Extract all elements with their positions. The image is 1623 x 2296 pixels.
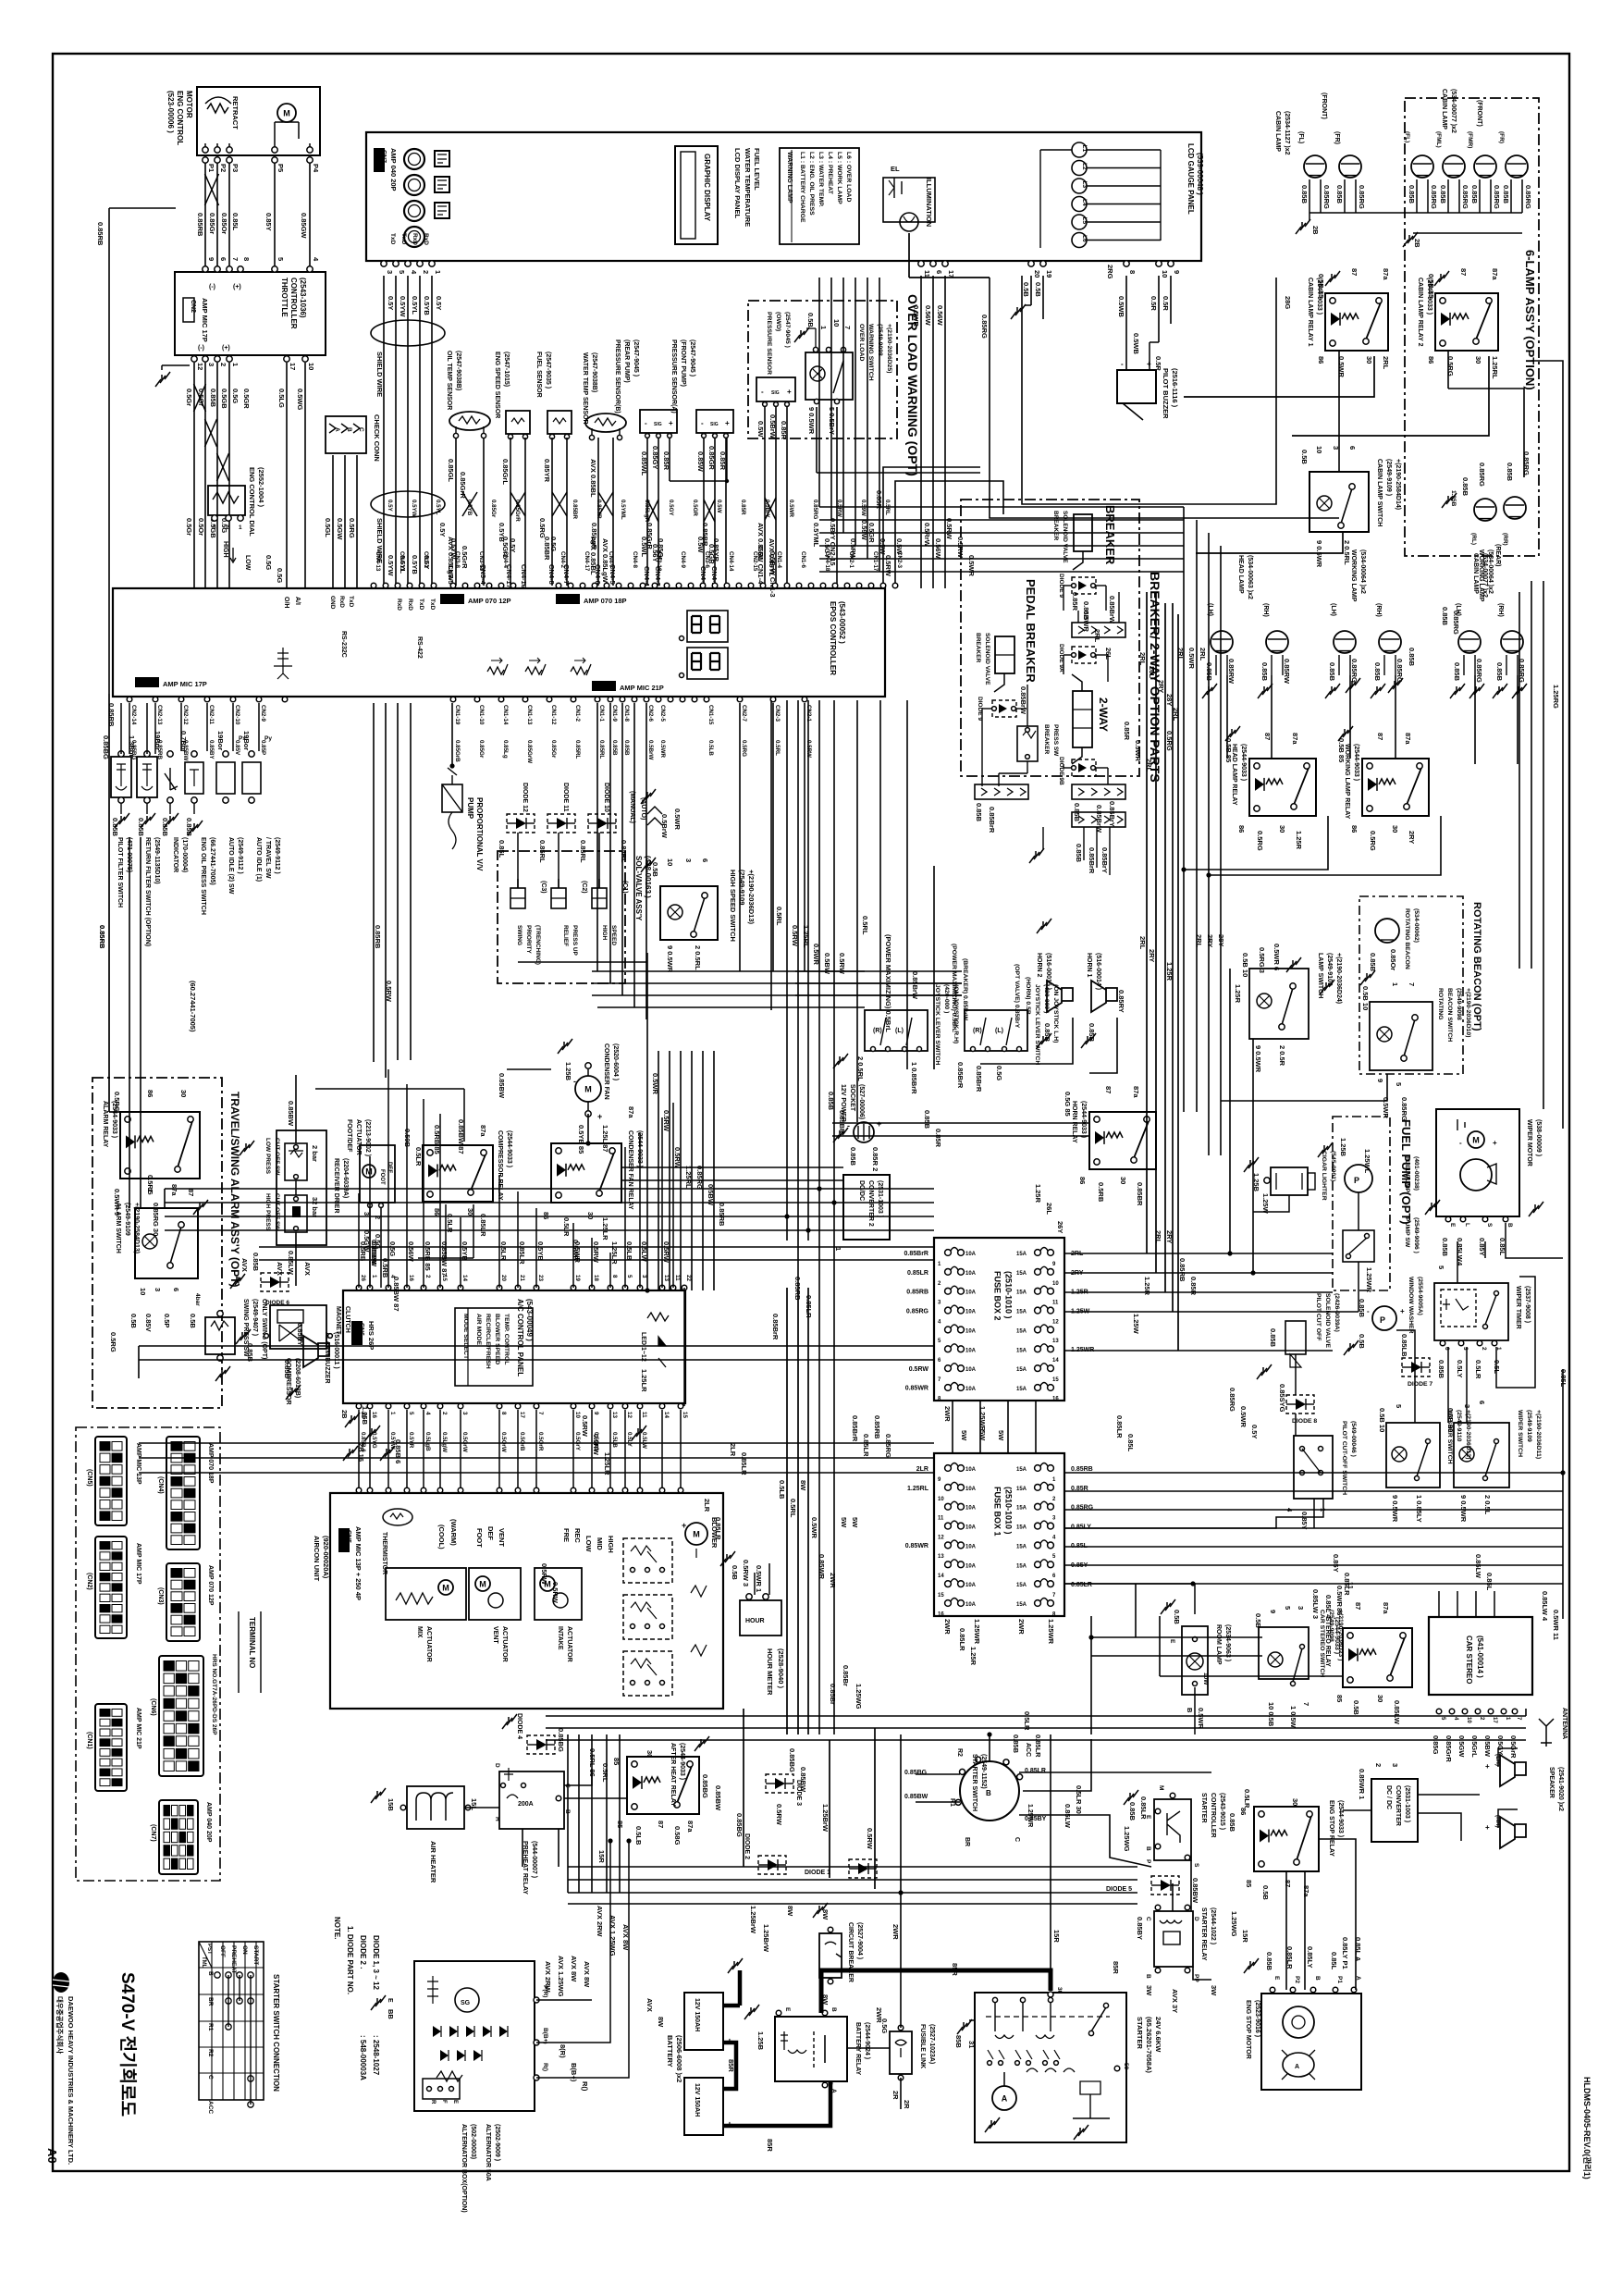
svg-text:1.25R: 1.25R xyxy=(1165,962,1174,981)
svg-text:1.25R: 1.25R xyxy=(1295,831,1303,850)
wires starter area buses xyxy=(568,1866,1137,1868)
svg-text:0.85RG: 0.85RG xyxy=(906,1308,929,1315)
svg-text:10A: 10A xyxy=(965,1506,977,1512)
svg-text:13: 13 xyxy=(938,1554,944,1560)
svg-text:9 0.5WR: 9 0.5WR xyxy=(807,407,816,435)
svg-text:6: 6 xyxy=(1444,1347,1450,1351)
svg-text:+: + xyxy=(725,419,730,427)
svg-text:85R: 85R xyxy=(1112,1961,1120,1974)
svg-text:1.25R: 1.25R xyxy=(1034,1184,1042,1204)
svg-text:0.85BrW: 0.85BrW xyxy=(911,971,919,1000)
svg-text:AVX 8W: AVX 8W xyxy=(621,1924,630,1951)
svg-text:1.25WR: 1.25WR xyxy=(1365,1267,1373,1293)
svg-text:5: 5 xyxy=(1284,1606,1292,1610)
svg-text:R1: R1 xyxy=(207,2023,214,2031)
svg-text:FRE: FRE xyxy=(562,1528,571,1542)
svg-text:0.85RG 30: 0.85RG 30 xyxy=(152,1203,160,1236)
svg-text:87a: 87a xyxy=(627,1106,635,1118)
svg-text:11: 11 xyxy=(641,1412,647,1418)
svg-text:RETRACT: RETRACT xyxy=(231,96,240,130)
svg-text:200A: 200A xyxy=(518,1801,534,1808)
svg-text:0.85RB: 0.85RB xyxy=(793,1277,802,1301)
svg-text:L6 : OVER LOAD: L6 : OVER LOAD xyxy=(845,152,852,202)
svg-text:0.85B: 0.85B xyxy=(1439,185,1447,204)
svg-text:(2544-9024 ): (2544-9024 ) xyxy=(864,2022,870,2059)
svg-text:0.85RG: 0.85RG xyxy=(812,500,818,520)
svg-text:(FRONT): (FRONT) xyxy=(1321,93,1327,119)
starter internals xyxy=(992,2086,1016,2110)
svg-text:0.85B: 0.85B xyxy=(1502,185,1510,204)
svg-text:0.85BW: 0.85BW xyxy=(904,1794,928,1800)
svg-text:WIPER SWITCH: WIPER SWITCH xyxy=(1517,1410,1523,1457)
svg-text:CN1-13: CN1-13 xyxy=(526,705,533,725)
svg-text:H: H xyxy=(494,1817,500,1821)
svg-text:0.5LR: 0.5LR xyxy=(1474,1360,1482,1379)
svg-text:HIGH PRESS: HIGH PRESS xyxy=(264,1193,271,1231)
svg-text:(FRONT PUMP): (FRONT PUMP) xyxy=(680,339,686,387)
cabin lamp relay 2 xyxy=(1435,293,1498,351)
svg-text:(RH): (RH) xyxy=(1262,603,1269,617)
svg-text:0.5B: 0.5B xyxy=(806,313,815,327)
svg-text:LCD DISPLAY PANEL: LCD DISPLAY PANEL xyxy=(733,148,742,219)
svg-text:0.85R: 0.85R xyxy=(1123,722,1131,741)
svg-text:FOOT/DEF: FOOT/DEF xyxy=(346,1119,352,1153)
svg-text:1.25WR: 1.25WR xyxy=(973,1619,981,1645)
wires at speakers xyxy=(1498,1748,1518,1767)
svg-text:(516-00011 ): (516-00011 ) xyxy=(333,1332,339,1369)
svg-text:(2544-9033 ): (2544-9033 ) xyxy=(1353,744,1359,781)
wire preheat down xyxy=(558,1829,559,1867)
svg-text:1.25WG: 1.25WG xyxy=(855,1684,863,1710)
svg-text:0.5RW: 0.5RW xyxy=(662,1110,670,1132)
svg-text:MIX: MIX xyxy=(416,1626,423,1638)
svg-text:0.5WR: 0.5WR xyxy=(1187,648,1196,670)
svg-text:0.5RW: 0.5RW xyxy=(791,925,799,947)
svg-text:87a: 87a xyxy=(1404,733,1412,745)
svg-text:(CN5): (CN5) xyxy=(86,1469,92,1487)
svg-text:9 0.5WR: 9 0.5WR xyxy=(666,945,674,973)
compressor relay xyxy=(423,1145,493,1202)
svg-text:0.5B 85: 0.5B 85 xyxy=(1317,274,1325,298)
compressor relay wires xyxy=(463,1089,465,1142)
sol valve feed horizontals xyxy=(518,961,647,963)
svg-text:3: 3 xyxy=(386,270,394,274)
svg-text:(2543-9015 ): (2543-9015 ) xyxy=(1219,1793,1225,1830)
svg-text:E: E xyxy=(1169,1639,1175,1644)
svg-text:0.85RG: 0.85RG xyxy=(1478,463,1486,487)
svg-text:2: 2 xyxy=(219,363,227,366)
svg-text:0.5RW 3: 0.5RW 3 xyxy=(742,1560,750,1586)
svg-text:+: + xyxy=(1400,1307,1405,1315)
svg-text:1.25BrW: 1.25BrW xyxy=(762,1924,770,1953)
diode 2 dashed xyxy=(758,1856,786,1874)
svg-text:(2547-9035 ): (2547-9035 ) xyxy=(545,352,551,389)
cigar lighter xyxy=(1271,1167,1308,1195)
svg-text:BREAKER: BREAKER xyxy=(1043,724,1050,754)
svg-text:0.85BrW: 0.85BrW xyxy=(1019,686,1027,715)
svg-text:11: 11 xyxy=(674,1275,681,1281)
svg-text:PUMP SW: PUMP SW xyxy=(1404,1217,1410,1248)
svg-text:0.85LgR: 0.85LgR xyxy=(590,523,598,550)
svg-text:30: 30 xyxy=(586,1212,595,1219)
svg-text:1: 1 xyxy=(434,270,442,274)
svg-text:2WR: 2WR xyxy=(943,1619,952,1635)
svg-text:2RL: 2RL xyxy=(1145,759,1153,772)
svg-text:86: 86 xyxy=(1427,356,1435,364)
wiper motor box xyxy=(1436,1109,1519,1216)
svg-text:0.5RG: 0.5RG xyxy=(1369,831,1377,851)
svg-text:HIGH: HIGH xyxy=(607,1536,615,1553)
svg-text:20: 20 xyxy=(500,1275,507,1281)
svg-text:0.5LR 30: 0.5LR 30 xyxy=(1075,1785,1083,1814)
svg-text:0.85L 4: 0.85L 4 xyxy=(1324,1595,1333,1619)
svg-text:7: 7 xyxy=(231,257,240,261)
svg-text:0.85RB: 0.85RB xyxy=(906,1290,928,1296)
svg-text:30: 30 xyxy=(1278,825,1286,833)
diode 3 dashed xyxy=(766,1774,793,1793)
6-lamp feed wires from left xyxy=(990,278,1339,518)
svg-text:50: 50 xyxy=(1123,2063,1129,2070)
svg-text:CAR STEREO SWITCH: CAR STEREO SWITCH xyxy=(1319,1610,1325,1677)
svg-text:CN1-15: CN1-15 xyxy=(707,705,714,725)
svg-text:0.5YW: 0.5YW xyxy=(411,500,417,517)
svg-text:0.85LY P1: 0.85LY P1 xyxy=(1341,1937,1349,1969)
svg-text:86: 86 xyxy=(1078,1177,1087,1184)
svg-text:-: - xyxy=(573,1077,576,1086)
breaker area grounds and wires xyxy=(1035,851,1037,857)
svg-text:O/H: O/H xyxy=(283,597,289,608)
svg-text:0.58G: 0.58G xyxy=(673,1826,682,1845)
overload owd wires down xyxy=(764,407,766,586)
svg-text:0.85L: 0.85L xyxy=(1485,1573,1494,1591)
fusible link xyxy=(890,2031,912,2074)
svg-text:ENG OIL PRESS SWITCH: ENG OIL PRESS SWITCH xyxy=(200,837,206,915)
svg-text:0.85RB: 0.85RB xyxy=(98,925,106,949)
svg-text:HIGH: HIGH xyxy=(601,925,608,941)
ground high speed xyxy=(646,860,648,866)
svg-text:0.85LR: 0.85LR xyxy=(862,1434,870,1457)
svg-text:2WR: 2WR xyxy=(829,1573,837,1588)
svg-text:17: 17 xyxy=(1492,1717,1497,1723)
svg-text:SOLENOID VALVE: SOLENOID VALVE xyxy=(984,633,990,685)
beacon wires xyxy=(1221,1074,1387,1101)
svg-text:INTAKE: INTAKE xyxy=(557,1626,563,1650)
left edge long vertical to alarm xyxy=(108,694,110,1112)
svg-text:0.5G: 0.5G xyxy=(264,555,273,570)
svg-text:0.85L: 0.85L xyxy=(1126,1434,1135,1452)
svg-text:20: 20 xyxy=(1033,270,1041,278)
svg-text:15A: 15A xyxy=(1016,1467,1027,1473)
svg-text:CN1-8: CN1-8 xyxy=(623,705,630,722)
rotating beacon dashed box xyxy=(1359,896,1463,1074)
svg-text:11: 11 xyxy=(938,1516,944,1522)
svg-text:(CN3): (CN3) xyxy=(157,1587,164,1605)
svg-text:15A: 15A xyxy=(1016,1387,1027,1392)
diode 5 dashed xyxy=(1151,1876,1179,1895)
svg-text:0.5WR: 0.5WR xyxy=(1335,1586,1344,1608)
svg-text:87a: 87a xyxy=(1491,268,1499,280)
left verticals components to alarm switch xyxy=(129,837,130,1208)
diode 9 dashed xyxy=(1072,577,1096,594)
svg-text:CIRCUIT BREAKER: CIRCUIT BREAKER xyxy=(847,1922,854,1982)
solenoid C2 xyxy=(551,888,566,908)
high speed switch xyxy=(660,886,718,940)
svg-text:CN4-8: CN4-8 xyxy=(632,551,638,568)
svg-text:ENG STOP RELAY: ENG STOP RELAY xyxy=(1328,1800,1334,1857)
svg-text:0.5YB 85: 0.5YB 85 xyxy=(577,1125,585,1154)
svg-text:AIR HEATER: AIR HEATER xyxy=(429,1841,437,1883)
svg-text:0.5YB: 0.5YB xyxy=(536,1241,545,1261)
svg-text:B: B xyxy=(1186,1708,1194,1713)
svg-text:0.5WR 6: 0.5WR 6 xyxy=(1273,944,1281,970)
svg-text:9 0.5WR: 9 0.5WR xyxy=(1391,1495,1399,1523)
svg-text:2RY: 2RY xyxy=(1408,831,1416,844)
svg-text:85R: 85R xyxy=(951,1963,959,1976)
svg-text:(-): (-) xyxy=(198,345,204,352)
svg-text:CN2-9: CN2-9 xyxy=(260,705,266,722)
svg-text:0.85BR: 0.85BR xyxy=(1136,1182,1144,1206)
wiper timer xyxy=(1434,1283,1508,1340)
svg-text:0.85RG: 0.85RG xyxy=(1228,1388,1236,1412)
svg-text:0.5GY: 0.5GY xyxy=(823,538,831,558)
svg-text:0.5WR: 0.5WR xyxy=(1239,1406,1248,1428)
svg-text:15A: 15A xyxy=(1016,1271,1027,1277)
svg-text:1.25WG: 1.25WG xyxy=(1123,1826,1131,1852)
svg-text:(2549-1152): (2549-1152) xyxy=(980,1754,987,1789)
svg-text:0.5RL: 0.5RL xyxy=(774,740,781,756)
svg-text:LOW: LOW xyxy=(244,555,251,571)
wires fuel pump xyxy=(1358,1192,1359,1230)
svg-text:0.85B: 0.85B xyxy=(1461,477,1469,497)
svg-text:(FR): (FR) xyxy=(1498,131,1505,143)
svg-text:26L: 26L xyxy=(1045,1203,1053,1215)
svg-text:0.5RW: 0.5RW xyxy=(385,981,393,1003)
svg-text:+: + xyxy=(877,1119,881,1129)
intake actuator xyxy=(535,1568,582,1620)
svg-text:3: 3 xyxy=(207,363,215,366)
svg-text:0.85RB: 0.85RB xyxy=(1071,1466,1093,1473)
svg-text:R2: R2 xyxy=(956,1748,963,1757)
svg-text:0.85GrB: 0.85GrB xyxy=(454,740,461,762)
diodes 12 11 10 xyxy=(507,814,535,833)
svg-text:0.5WR: 0.5WR xyxy=(651,1073,659,1095)
eng control motor pins P1 P2 P3 P5 P4 xyxy=(203,147,208,153)
svg-text:(2528-9040 ): (2528-9040 ) xyxy=(777,1648,785,1688)
svg-text:BREAKER: BREAKER xyxy=(975,633,981,662)
svg-text:30: 30 xyxy=(1391,825,1399,833)
lcd gauge panel box xyxy=(366,132,1201,261)
svg-text:5: 5 xyxy=(398,270,406,274)
svg-text:8: 8 xyxy=(1128,270,1137,274)
svg-text:ENG CONTROL: ENG CONTROL xyxy=(176,91,184,145)
svg-text:ALARM SWITCH: ALARM SWITCH xyxy=(115,1203,121,1253)
svg-text:2B: 2B xyxy=(1311,226,1320,235)
svg-text:87: 87 xyxy=(657,1821,665,1828)
CN6 tag ac panel xyxy=(351,1321,363,1345)
svg-text:10: 10 xyxy=(938,1497,944,1502)
svg-text:AMP 070 12P: AMP 070 12P xyxy=(468,597,511,605)
dc dc conv to speakers xyxy=(1418,1794,1480,1796)
svg-text:0.85GR: 0.85GR xyxy=(707,446,716,470)
svg-text:1: 1 xyxy=(231,363,240,366)
svg-text:15R: 15R xyxy=(1052,1930,1061,1943)
wires pilot cutoff chain xyxy=(1295,1354,1297,1395)
svg-text:3: 3 xyxy=(213,525,216,531)
svg-text:85B: 85B xyxy=(954,2035,963,2048)
svg-text:(POWER MAXIMIZING) 0.5BrL: (POWER MAXIMIZING) 0.5BrL xyxy=(951,944,957,1032)
svg-text:19Bor: 19Bor xyxy=(154,731,162,750)
svg-text:7: 7 xyxy=(843,326,852,329)
svg-text:0.85LB: 0.85LB xyxy=(1400,1334,1408,1357)
svg-text:0.5B: 0.5B xyxy=(189,1314,197,1328)
svg-text:DIODE 5: DIODE 5 xyxy=(1106,1886,1132,1893)
svg-text:0.85W: 0.85W xyxy=(696,451,705,473)
svg-text:TxD: TxD xyxy=(418,599,424,611)
svg-text:VENT: VENT xyxy=(498,1528,506,1547)
svg-text:0.85B: 0.85B xyxy=(137,818,145,837)
svg-text:PROPORTIONAL V/V: PROPORTIONAL V/V xyxy=(475,797,484,871)
svg-text:24V 6.6KW: 24V 6.6KW xyxy=(1154,2017,1162,2053)
svg-text:(66.27441-7005): (66.27441-7005) xyxy=(209,837,215,885)
pressure switch components row xyxy=(111,757,131,797)
svg-text:11: 11 xyxy=(923,270,931,278)
svg-text:0.85Y: 0.85Y xyxy=(264,213,273,231)
svg-text:2LR: 2LR xyxy=(729,1443,737,1457)
svg-text:SHIELD WIRE: SHIELD WIRE xyxy=(375,352,384,397)
svg-text:87: 87 xyxy=(1350,268,1359,276)
wire 2WR vertical xyxy=(900,1734,902,2028)
svg-text:0.5RW: 0.5RW xyxy=(673,1147,682,1169)
right edge verticals xyxy=(1543,581,1544,1109)
svg-text:1 0.85LY: 1 0.85LY xyxy=(1415,1495,1423,1523)
svg-text:2 0.5RL: 2 0.5RL xyxy=(694,945,702,970)
svg-text:8: 8 xyxy=(611,1275,618,1278)
svg-text:CABIN LAMP SWITCH: CABIN LAMP SWITCH xyxy=(1376,459,1383,526)
svg-text:0.5BW: 0.5BW xyxy=(707,1184,715,1206)
over load warning switch xyxy=(805,352,853,400)
svg-text:0.5RG 3: 0.5RG 3 xyxy=(1258,947,1266,973)
svg-text:0.5YB: 0.5YB xyxy=(411,555,419,574)
svg-text:RxD: RxD xyxy=(407,599,413,611)
svg-text:0.85LW 3: 0.85LW 3 xyxy=(1311,1589,1320,1619)
svg-text:(CN7): (CN7) xyxy=(150,1824,156,1842)
svg-text:1.25R: 1.25R xyxy=(1234,984,1242,1004)
svg-text:ENG STOP MOTOR: ENG STOP MOTOR xyxy=(1245,2000,1251,2059)
svg-text:PRESS UP: PRESS UP xyxy=(572,925,578,957)
svg-text:LOW: LOW xyxy=(584,1536,593,1552)
svg-text:1. DIODE PART NO.: 1. DIODE PART NO. xyxy=(346,1926,354,1994)
svg-text:2: 2 xyxy=(424,1275,431,1278)
svg-text:CN4-4: CN4-4 xyxy=(502,551,509,568)
svg-text:CN2: CN2 xyxy=(137,681,150,687)
svg-text:9 0.5WR: 9 0.5WR xyxy=(1315,540,1323,568)
svg-text:15R: 15R xyxy=(597,1850,606,1863)
svg-text:0.5RW: 0.5RW xyxy=(836,500,842,517)
svg-text:0.5BrY: 0.5BrY xyxy=(764,500,770,518)
svg-text:8: 8 xyxy=(500,1412,507,1415)
svg-text:HOUR: HOUR xyxy=(745,1618,765,1624)
svg-text:15A: 15A xyxy=(1016,1583,1027,1588)
svg-text:TxD: TxD xyxy=(389,233,396,245)
svg-text:STARTER: STARTER xyxy=(1136,2017,1144,2049)
svg-text:2RL: 2RL xyxy=(1154,1230,1162,1244)
svg-text:0.85LR: 0.85LR xyxy=(958,1628,966,1651)
svg-text:10: 10 xyxy=(1315,446,1323,453)
svg-text:(+): (+) xyxy=(233,284,241,290)
svg-text:1.25R: 1.25R xyxy=(1143,1277,1151,1296)
svg-text:AVX: AVX xyxy=(303,1262,312,1276)
svg-text:L5: L5 xyxy=(1081,217,1088,225)
svg-text:15A: 15A xyxy=(1016,1487,1027,1492)
svg-text:B: B xyxy=(207,1971,214,1976)
battery thick wires xyxy=(723,2004,740,2008)
svg-text:0.5BW: 0.5BW xyxy=(823,953,831,975)
svg-text:0.85YR: 0.85YR xyxy=(596,500,602,519)
svg-text:AUTO IDLE (1): AUTO IDLE (1) xyxy=(255,837,262,882)
svg-text:8W: 8W xyxy=(786,1906,794,1917)
svg-text:(2554-9005A): (2554-9005A) xyxy=(1417,1277,1423,1315)
svg-text:FOOT: FOOT xyxy=(379,1169,385,1185)
svg-text:16: 16 xyxy=(1052,1397,1059,1402)
CN7 tag in gauge panel xyxy=(374,148,385,172)
svg-text:2RY: 2RY xyxy=(1206,934,1214,947)
svg-text:STARTER RELAY: STARTER RELAY xyxy=(1200,1907,1207,1961)
svg-text:12V 150AH: 12V 150AH xyxy=(694,2083,700,2117)
svg-text:0.85RL: 0.85RL xyxy=(598,740,605,759)
daewoo logo xyxy=(53,1972,69,1993)
svg-text:15A: 15A xyxy=(1016,1525,1027,1531)
svg-text:10: 10 xyxy=(1466,1717,1471,1723)
svg-text:0.85LR: 0.85LR xyxy=(714,1517,722,1540)
svg-text:(2510-1010 ): (2510-1010 ) xyxy=(1003,1271,1013,1319)
svg-text:RETURN FILTER SWITCH (OPTION): RETURN FILTER SWITCH (OPTION) xyxy=(144,837,151,946)
svg-text:0.5LB: 0.5LB xyxy=(707,740,714,756)
svg-text:CN1-10: CN1-10 xyxy=(478,705,485,725)
svg-text:(+): (+) xyxy=(222,345,230,352)
svg-text:M: M xyxy=(479,1580,486,1589)
svg-text:(2541-9020 )x2: (2541-9020 )x2 xyxy=(1557,1767,1564,1811)
svg-text:0.5GW: 0.5GW xyxy=(336,518,344,540)
svg-text:+: + xyxy=(1485,1762,1490,1771)
svg-text:B(B+): B(B+) xyxy=(570,2063,578,2082)
svg-text:CN4-13: CN4-13 xyxy=(375,551,381,572)
svg-text:5: 5 xyxy=(408,1412,414,1415)
svg-text:START: START xyxy=(252,1945,259,1965)
svg-text:0.85LY: 0.85LY xyxy=(1071,1524,1091,1530)
after heat relay xyxy=(627,1757,699,1814)
shield wire capsule xyxy=(371,320,445,346)
mode select box xyxy=(455,1308,533,1386)
pressure sensor A front pump xyxy=(696,410,733,433)
svg-text:2 0.5R: 2 0.5R xyxy=(1278,1045,1286,1067)
svg-text:0.85B: 0.85B xyxy=(1470,185,1479,204)
svg-text:M: M xyxy=(283,109,290,118)
graphic display box xyxy=(675,146,718,244)
svg-text:0.85B: 0.85B xyxy=(623,740,630,756)
svg-text:L: L xyxy=(1464,1223,1470,1227)
svg-text:2B: 2B xyxy=(1413,239,1421,248)
svg-text:(2537-9008 ): (2537-9008 ) xyxy=(1524,1286,1531,1323)
svg-text:P3: P3 xyxy=(231,164,240,172)
svg-text:ALARM RELAY: ALARM RELAY xyxy=(102,1101,108,1148)
svg-text:RxD: RxD xyxy=(338,596,345,608)
svg-text:PRIORITY: PRIORITY xyxy=(525,925,532,954)
arcon unit box xyxy=(330,1493,723,1709)
svg-text:0.59W: 0.59W xyxy=(860,520,868,541)
svg-text:(CN6): (CN6) xyxy=(150,1698,156,1716)
svg-text:(534-00063 )x2: (534-00063 )x2 xyxy=(1247,555,1253,599)
svg-text:10: 10 xyxy=(666,858,674,866)
